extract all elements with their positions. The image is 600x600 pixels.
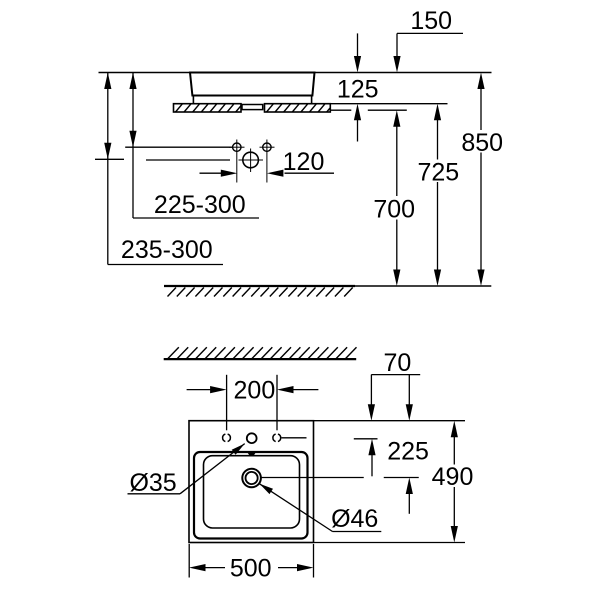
extension line 700 level (330, 109, 407, 111)
basin body (side view) (190, 73, 315, 96)
svg-text:700: 700 (373, 196, 415, 224)
bottom edge extension line (314, 542, 466, 544)
wall line (plan) (164, 358, 357, 360)
label 500 (230, 555, 272, 583)
overflow slot (247, 452, 257, 456)
dimension 225-300 line (129, 73, 259, 219)
dimension 150 arrows (393, 33, 400, 196)
svg-text:500: 500 (230, 555, 272, 583)
floor line (164, 285, 491, 287)
basin foot right edge (311, 96, 313, 104)
svg-text:200: 200 (234, 377, 276, 405)
svg-text:150: 150 (410, 7, 452, 35)
faucet holes center line (125, 146, 232, 148)
svg-text:235-300: 235-300 (121, 236, 213, 264)
label 70 (383, 349, 411, 377)
label 490 (432, 463, 474, 491)
drain outer circle (242, 469, 261, 488)
svg-text:225: 225 (387, 438, 429, 466)
label 850 (461, 129, 503, 157)
leader line for Ø35 (128, 444, 245, 494)
label 235-300 (121, 236, 213, 264)
svg-text:225-300: 225-300 (154, 191, 246, 219)
mixer hole (side view) (239, 149, 264, 173)
basin outline (plan) (189, 421, 314, 543)
dimension 500 (189, 544, 314, 578)
label 700 (373, 196, 415, 224)
dimension 235-300 line (95, 73, 223, 265)
leader line for Ø46 (260, 484, 382, 532)
svg-text:490: 490 (432, 463, 474, 491)
bowl inner edge (plan) (204, 456, 300, 528)
label 225-300 (154, 191, 246, 219)
top edge extension line (314, 420, 466, 422)
svg-text:850: 850 (461, 129, 503, 157)
svg-text:70: 70 (383, 349, 411, 377)
dimension 725 line (434, 104, 441, 286)
svg-text:725: 725 (417, 159, 459, 187)
dimension 850 line (477, 73, 484, 287)
label 725 (417, 159, 459, 187)
floor hatching (168, 288, 353, 297)
dimension 490 (451, 421, 458, 543)
label 150 (410, 7, 452, 35)
shelf board right segment (265, 104, 331, 112)
shelf board left segment (174, 104, 242, 112)
wall hatching (plan) (168, 347, 357, 358)
dimension 225 plan (384, 375, 419, 514)
mixer center line (146, 159, 230, 161)
mixer hole (plan) (247, 433, 257, 443)
label Ø46 (331, 505, 378, 533)
svg-text:125: 125 (337, 76, 379, 104)
basin foot left edge (192, 96, 194, 104)
svg-text:Ø35: Ø35 (129, 469, 176, 497)
label Ø35 (129, 469, 176, 497)
dimension 125 arrows (354, 33, 361, 141)
drain inner circle (246, 472, 258, 484)
label 120 (283, 148, 325, 176)
svg-text:120: 120 (283, 148, 325, 176)
faucet knockout left (plan) (223, 434, 231, 441)
svg-text:Ø46: Ø46 (331, 505, 378, 533)
dimension 700 line (393, 220, 400, 287)
drain fitting below basin (242, 105, 263, 110)
dimension 120 arrows (200, 170, 335, 177)
dimension 70 (354, 375, 420, 477)
rim reference line (850 level) (99, 72, 492, 74)
bowl rim (plan) (194, 452, 308, 539)
faucet hole center extension right (282, 437, 307, 439)
label 125 (337, 76, 379, 104)
dimension 200 (187, 375, 319, 431)
label 200 (234, 377, 276, 405)
extension line 725 level (330, 103, 447, 105)
faucet knockout right (plan) (273, 434, 281, 441)
drain center line (262, 477, 364, 479)
faucet hole left (side view) (229, 140, 245, 183)
faucet hole right (side view) (260, 140, 275, 183)
label 225 (387, 438, 429, 466)
dimension 150 leader (397, 32, 463, 34)
